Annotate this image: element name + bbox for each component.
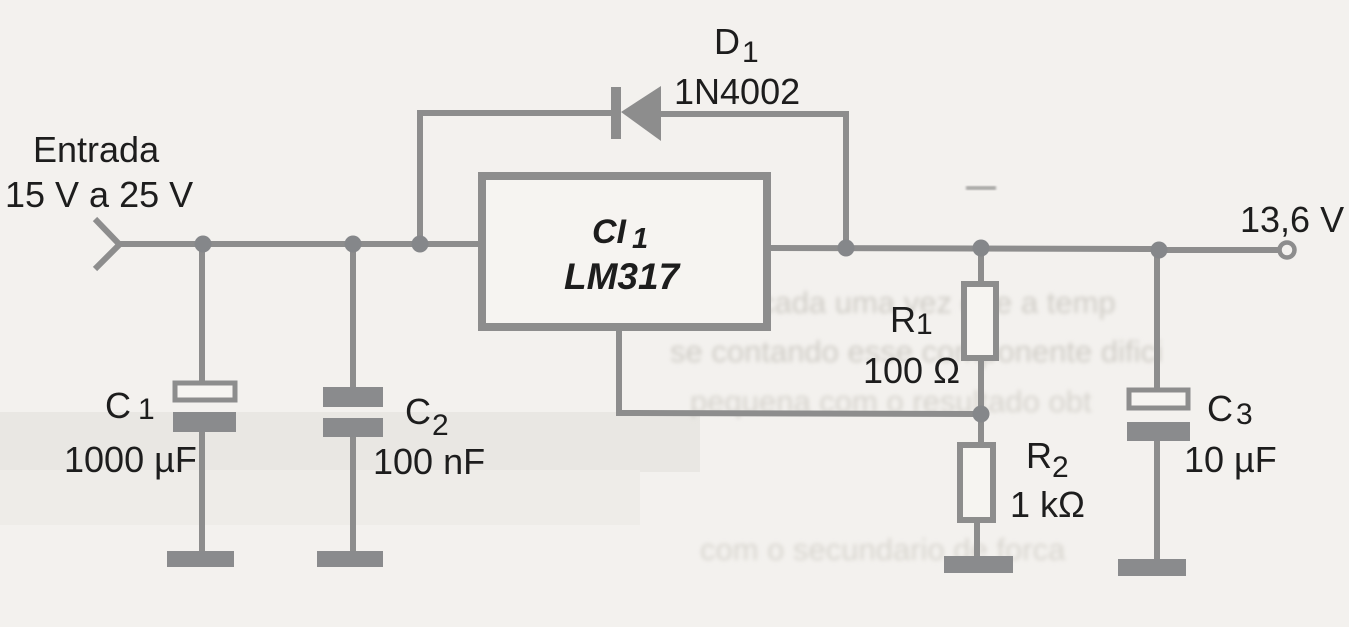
node C3 top — [1151, 242, 1168, 259]
svg-text:100 Ω: 100 Ω — [863, 350, 960, 391]
wire C1 branch top — [199, 244, 205, 382]
diode D1 — [611, 86, 661, 141]
node diode right / output — [838, 240, 855, 257]
node input/C1 — [195, 236, 212, 253]
capacitor C2 — [323, 387, 383, 437]
wire diode top left — [417, 110, 612, 116]
svg-text:100 nF: 100 nF — [373, 441, 485, 482]
wire diode left riser — [417, 110, 423, 244]
ground R2 — [944, 556, 1013, 573]
svg-text:15 V a 25 V: 15 V a 25 V — [5, 174, 193, 215]
svg-text:13,6 V: 13,6 V — [1240, 199, 1344, 240]
svg-text:1 kΩ: 1 kΩ — [1010, 484, 1085, 525]
svg-text:1: 1 — [916, 308, 933, 341]
op-amp box CI1 LM317 — [482, 176, 767, 327]
svg-text:CI: CI — [592, 213, 628, 251]
svg-text:C: C — [1207, 388, 1233, 429]
svg-text:R: R — [1026, 435, 1052, 476]
wire input rail — [117, 241, 482, 247]
capacitor C1 — [173, 383, 236, 432]
capacitor C3 — [1127, 390, 1190, 441]
svg-text:C: C — [105, 385, 131, 426]
resistor R1 — [964, 284, 996, 358]
svg-text:D: D — [714, 21, 740, 62]
svg-text:1: 1 — [632, 223, 648, 255]
wire diode right riser — [843, 114, 849, 250]
output terminal circle — [1280, 243, 1295, 258]
resistor R2 — [960, 445, 993, 520]
svg-text:1000 µF: 1000 µF — [64, 439, 197, 480]
svg-text:10 µF: 10 µF — [1184, 439, 1277, 480]
wire output rail — [768, 248, 1161, 249]
label CI1 — [564, 213, 682, 297]
node R1 top — [973, 240, 990, 257]
faint printing artifact dash — [966, 186, 996, 190]
wire ADJ vertical — [616, 329, 622, 413]
ground C1 — [167, 551, 234, 567]
ground C3 — [1118, 559, 1186, 576]
node diode left — [412, 236, 429, 253]
wire R2 bottom lead — [974, 520, 980, 559]
svg-text:1N4002: 1N4002 — [674, 71, 800, 112]
svg-text:Entrada: Entrada — [33, 129, 160, 170]
wire R1 top lead — [978, 248, 984, 284]
wire C1 branch bottom — [199, 431, 205, 554]
wire C2 branch top — [350, 244, 356, 388]
wire diode top right — [660, 111, 849, 117]
svg-text:LM317: LM317 — [564, 256, 682, 297]
svg-text:3: 3 — [1236, 398, 1253, 431]
svg-text:1: 1 — [742, 36, 759, 69]
wire C3 branch top — [1154, 250, 1160, 390]
wire R1 bottom lead — [978, 358, 984, 444]
svg-text:2: 2 — [1052, 451, 1069, 484]
input terminal — [95, 219, 120, 269]
svg-text:1: 1 — [138, 393, 155, 426]
wire C2 branch bottom — [350, 436, 356, 554]
wire ADJ horizontal — [616, 413, 981, 414]
svg-text:R: R — [890, 299, 916, 340]
svg-text:2: 2 — [432, 409, 449, 442]
svg-text:C: C — [405, 391, 431, 432]
node ADJ / R1-R2 — [973, 406, 990, 423]
wire output to terminal — [1159, 247, 1279, 253]
wire C3 branch bottom — [1154, 440, 1160, 561]
node C2 — [345, 236, 362, 253]
ground C2 — [317, 551, 383, 567]
